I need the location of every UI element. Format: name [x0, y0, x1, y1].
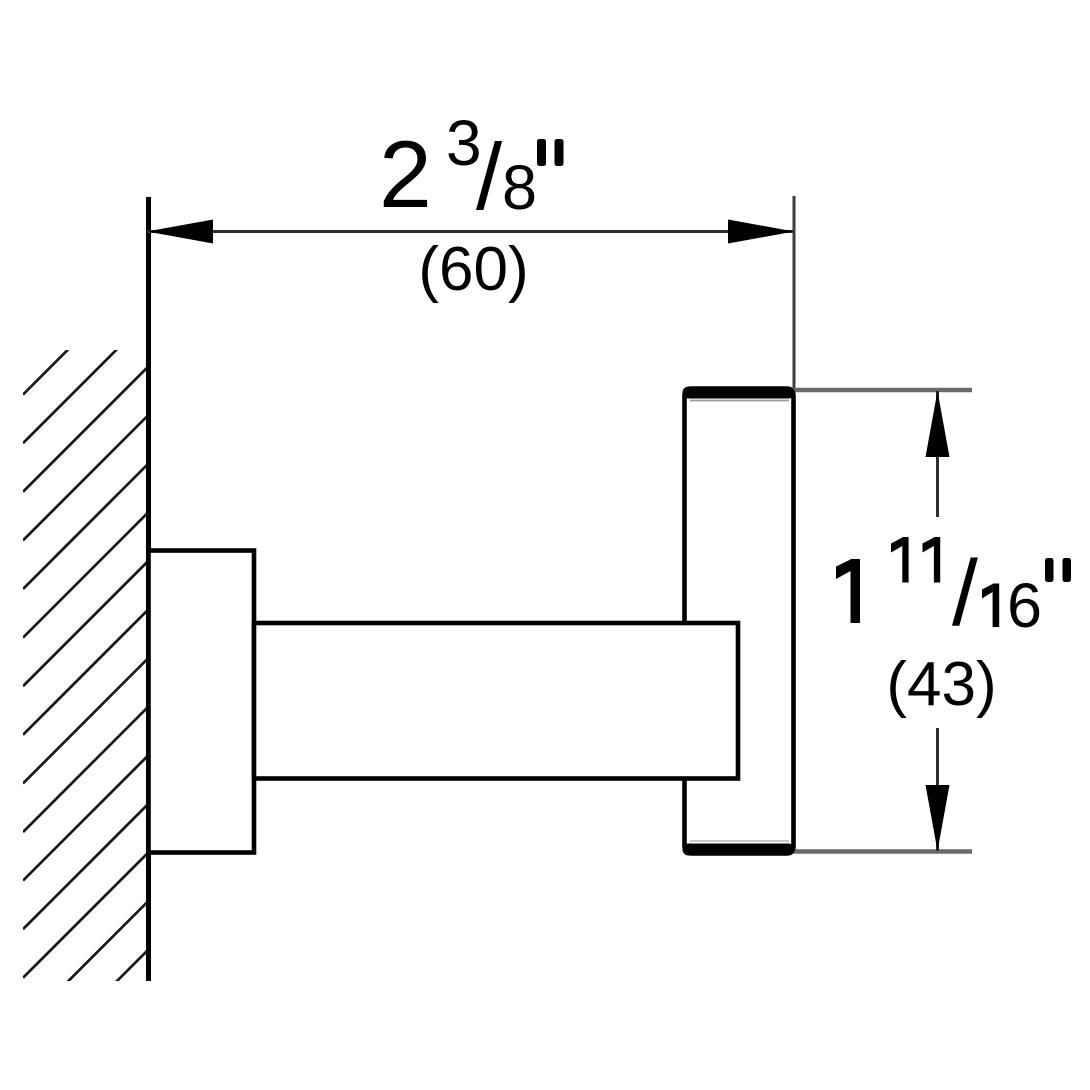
arrow down of right dimension: [926, 785, 950, 851]
arm: [254, 623, 738, 779]
svg-text:(60): (60): [418, 235, 528, 304]
arrow right of top dimension: [728, 220, 794, 244]
extension line lower of right dimension: [792, 849, 972, 854]
arrow left of top dimension: [147, 220, 213, 244]
hook bar top cap: [683, 387, 795, 399]
svg-text:2: 2: [379, 122, 432, 228]
dimension line right lower segment: [936, 728, 939, 851]
svg-text:(43): (43): [886, 650, 996, 719]
mounting plate: [149, 551, 255, 853]
wall hatching: [23, 271, 147, 1075]
label 2 3/8": [379, 107, 564, 229]
extension line upper of right dimension: [792, 388, 972, 393]
hook bar bottom cap: [683, 844, 795, 856]
svg-text:6: 6: [1007, 571, 1042, 641]
dimension line top: [147, 230, 794, 233]
hook bar (vertical cylinder): [685, 389, 794, 854]
label 1 11/16": [836, 537, 1071, 645]
svg-text:/: /: [952, 541, 978, 645]
extension line right of top dimension: [793, 196, 796, 388]
svg-text:/: /: [476, 124, 503, 229]
arrow up of right dimension: [926, 391, 950, 457]
wall line: [146, 197, 151, 981]
svg-text:8: 8: [502, 153, 537, 223]
dimension line right upper segment: [936, 391, 939, 517]
